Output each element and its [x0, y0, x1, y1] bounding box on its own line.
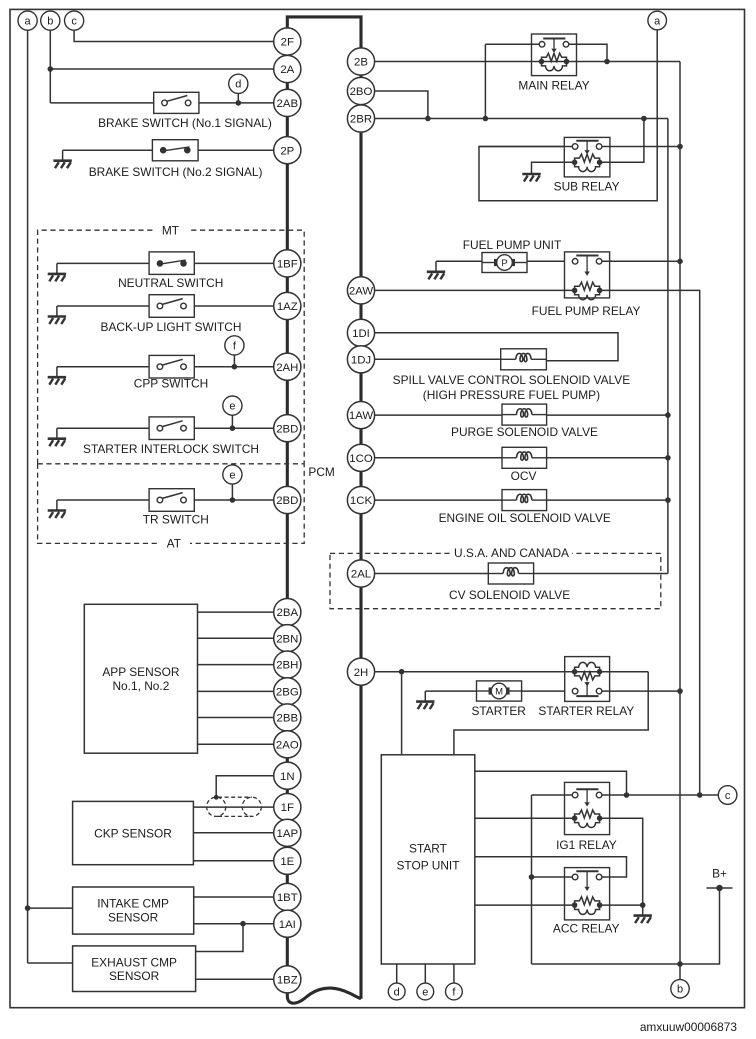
- svg-text:1CO: 1CO: [349, 453, 373, 465]
- pin 1DJ: [347, 346, 374, 373]
- wire node a drop: [27, 30, 29, 963]
- wire gnd to starter: [425, 690, 476, 692]
- svg-text:c: c: [71, 16, 77, 28]
- pin 1E: [274, 847, 301, 874]
- svg-text:1E: 1E: [280, 856, 294, 868]
- svg-text:ENGINE OIL SOLENOID VALVE: ENGINE OIL SOLENOID VALVE: [439, 511, 611, 525]
- svg-text:SENSOR: SENSOR: [109, 969, 160, 983]
- svg-text:STARTER: STARTER: [471, 704, 526, 718]
- shield dashed circle left: [207, 797, 226, 816]
- svg-text:IG1 RELAY: IG1 RELAY: [556, 838, 617, 852]
- wire backup sw to 1AZ: [194, 305, 273, 307]
- svg-text:2BH: 2BH: [276, 660, 298, 672]
- pin 2BR: [347, 105, 374, 132]
- wire SSU to IG1 coil: [475, 817, 575, 819]
- wire fp coil right: [600, 290, 700, 795]
- solenoid purge valve: [502, 404, 547, 425]
- svg-text:2BR: 2BR: [350, 114, 372, 126]
- svg-text:2AO: 2AO: [276, 739, 299, 751]
- svg-text:OCV: OCV: [511, 469, 537, 483]
- ground interlock switch: [48, 428, 66, 446]
- wire IG1 coil right: [600, 818, 643, 905]
- wire 2H loop to SSU: [454, 672, 648, 755]
- wire sub contact left: [479, 146, 575, 148]
- wire b to brake switch 1: [50, 102, 153, 104]
- node d: [229, 74, 248, 93]
- wire 1AW to purge: [375, 414, 502, 416]
- pin 2AW: [347, 277, 374, 304]
- svg-text:BRAKE SWITCH (No.1 SIGNAL): BRAKE SWITCH (No.1 SIGNAL): [98, 116, 272, 130]
- ground TR switch: [48, 500, 66, 518]
- svg-text:2BD: 2BD: [276, 423, 298, 435]
- ground backup switch: [48, 306, 66, 324]
- solenoid engine oil valve: [502, 490, 547, 511]
- svg-text:1AW: 1AW: [349, 410, 374, 422]
- wire 1N branch: [216, 776, 274, 798]
- MT dashed box: [38, 230, 305, 464]
- pin 1CO: [347, 444, 374, 471]
- pin 2BN: [274, 625, 301, 652]
- svg-text:CPP SWITCH: CPP SWITCH: [134, 377, 208, 391]
- svg-text:a: a: [25, 16, 32, 28]
- node dot d junction: [236, 100, 242, 106]
- node dot b-2A: [48, 66, 54, 72]
- svg-text:AT: AT: [167, 536, 181, 550]
- pin 2H: [347, 658, 374, 685]
- pin 2AH: [274, 353, 301, 380]
- USA label gap: [450, 547, 572, 559]
- wire e2 drop: [231, 484, 233, 500]
- wire SSU to IG1 contact: [475, 771, 627, 795]
- node dot sub contact right: [677, 144, 683, 150]
- wire SSU drop f: [453, 964, 455, 983]
- svg-text:SPILL VALVE CONTROL SOLENOID V: SPILL VALVE CONTROL SOLENOID VALVE: [393, 373, 631, 387]
- ground brake2: [53, 150, 71, 168]
- wire exhaust to 1BZ: [196, 978, 274, 980]
- node dot engine oil right: [665, 497, 671, 503]
- wire gnd to backup sw: [57, 305, 149, 307]
- svg-text:CV SOLENOID VALVE: CV SOLENOID VALVE: [449, 588, 570, 602]
- wire brake2 to 2P: [198, 149, 274, 151]
- node c top: [65, 11, 84, 30]
- node e bottom: [417, 983, 434, 1000]
- node dot fp contact right: [677, 259, 683, 265]
- exhaust CMP sensor box: [73, 946, 196, 992]
- node d bottom: [388, 983, 405, 1000]
- svg-text:MT: MT: [162, 223, 179, 237]
- wire interlock sw to 2BD: [194, 427, 273, 429]
- node f bottom: [446, 983, 463, 1000]
- wire 2H line: [375, 671, 649, 673]
- pin 1DI: [347, 319, 374, 346]
- svg-text:STOP UNIT: STOP UNIT: [397, 858, 460, 872]
- node dot ACC tap: [529, 874, 535, 880]
- pin 1AW: [347, 402, 374, 429]
- svg-text:FUEL PUMP RELAY: FUEL PUMP RELAY: [532, 304, 641, 318]
- node dot 2BO-2BR: [425, 116, 431, 122]
- wire PCM bus top: [287, 17, 361, 62]
- svg-text:PURGE SOLENOID VALVE: PURGE SOLENOID VALVE: [451, 425, 598, 439]
- svg-text:c: c: [725, 790, 731, 802]
- svg-text:1BT: 1BT: [277, 892, 298, 904]
- svg-text:EXHAUST CMP: EXHAUST CMP: [91, 955, 177, 969]
- node dot e2 junction: [230, 497, 236, 503]
- shield dashed tangents: [218, 796, 252, 798]
- wire node b drop: [49, 30, 51, 103]
- MT-AT divider dashed: [38, 463, 305, 465]
- svg-text:2AW: 2AW: [349, 286, 374, 298]
- ground starter: [416, 691, 434, 709]
- svg-text:1N: 1N: [280, 771, 295, 783]
- wire a to exhaust cmp: [28, 962, 73, 964]
- wire APP to 2BB: [198, 717, 274, 719]
- svg-text:2AH: 2AH: [276, 362, 298, 374]
- pin 2BD: [274, 415, 301, 442]
- wire engine oil right: [547, 499, 668, 501]
- node a top: [18, 11, 37, 30]
- node dot ACC gnd: [640, 902, 646, 908]
- pin 2BG: [274, 678, 301, 705]
- wire CPP sw to 2AH: [194, 366, 273, 368]
- ground sub relay: [522, 164, 540, 182]
- wire pump to fp relay: [527, 260, 565, 262]
- svg-text:B+: B+: [712, 866, 727, 880]
- pin 2AO: [274, 731, 301, 758]
- wire B+ down: [532, 888, 720, 964]
- wire IG1 contact to c: [600, 794, 719, 796]
- switch starter interlock: [149, 417, 194, 440]
- svg-text:e: e: [229, 469, 235, 481]
- node dot starter contact right: [677, 688, 683, 694]
- svg-text:e: e: [229, 401, 235, 413]
- svg-text:1AP: 1AP: [277, 828, 299, 840]
- wire ACC coil right: [600, 904, 643, 906]
- wire 2AL to CV: [375, 573, 489, 575]
- node dot sub coil feed: [641, 116, 647, 122]
- svg-text:2BG: 2BG: [276, 687, 299, 699]
- wire starter to relay: [522, 690, 565, 692]
- node dot f junction: [232, 364, 238, 370]
- wire intake to 1AI: [194, 923, 274, 925]
- wire IG1 contact line: [532, 794, 577, 796]
- switch TR: [149, 489, 194, 512]
- wire 2AW to fp coil: [375, 289, 575, 291]
- wire APP to 2BA: [198, 611, 274, 613]
- wire d drop: [237, 93, 239, 103]
- node dot 2BR riser: [483, 116, 489, 122]
- pin 2BO: [347, 77, 374, 104]
- pin 1N: [274, 762, 301, 789]
- wire 2H to SSU: [401, 672, 403, 755]
- wire sub contact right: [599, 146, 680, 148]
- pin 1AP: [274, 819, 301, 846]
- pin 2BB: [274, 704, 301, 731]
- pin 2BH: [274, 651, 301, 678]
- svg-text:1DI: 1DI: [352, 328, 370, 340]
- svg-text:b: b: [677, 984, 683, 996]
- svg-text:TR SWITCH: TR SWITCH: [143, 513, 209, 527]
- wire sub coil right: [600, 119, 644, 163]
- wire 2B line: [375, 61, 680, 63]
- svg-text:MAIN RELAY: MAIN RELAY: [518, 78, 589, 92]
- node dot shield: [214, 795, 219, 800]
- node b bottom: [671, 980, 689, 998]
- wire bus bottom squiggle: [287, 988, 361, 1003]
- wire 1AI branch to exhaust: [196, 924, 243, 952]
- wire neutral sw to 1BF: [194, 262, 273, 264]
- ground CPP switch: [48, 367, 66, 385]
- ground fuel pump: [427, 261, 445, 279]
- pin 1BZ: [274, 966, 301, 993]
- wire 1DJ to spill valve: [375, 358, 501, 360]
- wire PCM left bus: [286, 28, 289, 992]
- svg-text:U.S.A. AND CANADA: U.S.A. AND CANADA: [454, 546, 569, 560]
- wire main relay contact right: [566, 44, 607, 61]
- svg-text:ACC RELAY: ACC RELAY: [553, 922, 620, 936]
- wire OCV right: [547, 457, 668, 459]
- node e: [223, 396, 242, 415]
- svg-text:BRAKE SWITCH (No.2 SIGNAL): BRAKE SWITCH (No.2 SIGNAL): [89, 165, 263, 179]
- svg-text:d: d: [235, 79, 241, 91]
- wire SSU drop d: [396, 964, 398, 983]
- ground neutral switch: [48, 263, 66, 281]
- svg-text:INTAKE CMP: INTAKE CMP: [97, 897, 169, 911]
- wire 2BR line: [375, 118, 668, 120]
- node dot IG1 contact tap: [624, 792, 630, 798]
- CKP sensor box: [73, 801, 194, 864]
- svg-text:PCM: PCM: [308, 465, 334, 479]
- wire CKP to 1AP: [193, 832, 273, 834]
- svg-text:START: START: [409, 841, 447, 855]
- wire 1DI loop: [375, 333, 618, 361]
- node dot main relay contact: [604, 59, 610, 65]
- wire APP to 2AO: [198, 743, 274, 745]
- wire gnd to interlock sw: [57, 427, 149, 429]
- wire starter relay contact right: [599, 690, 680, 692]
- svg-text:2P: 2P: [280, 145, 294, 157]
- svg-text:SUB RELAY: SUB RELAY: [554, 179, 620, 193]
- wire purge right: [547, 414, 668, 416]
- intake CMP sensor box: [73, 887, 194, 934]
- svg-text:2A: 2A: [280, 64, 294, 76]
- svg-text:2AL: 2AL: [351, 569, 371, 581]
- wire ACC contact left: [532, 876, 577, 878]
- wire 2BR riser: [484, 44, 486, 118]
- svg-text:BACK-UP LIGHT SWITCH: BACK-UP LIGHT SWITCH: [101, 320, 242, 334]
- AT dashed box: [38, 464, 305, 544]
- svg-text:b: b: [47, 16, 53, 28]
- node dot c rail: [697, 792, 703, 798]
- pin 2BA: [274, 599, 301, 626]
- svg-text:No.1, No.2: No.1, No.2: [112, 679, 169, 693]
- node dot 1AI branch: [240, 921, 246, 927]
- APP sensor box: [84, 604, 197, 753]
- USA dashed box: [330, 553, 661, 608]
- pin 2P: [274, 137, 301, 164]
- solenoid OCV: [502, 447, 547, 468]
- wire a right drop: [656, 30, 658, 147]
- pin 1CK: [347, 487, 374, 514]
- pin 2BD: [274, 486, 301, 513]
- solenoid CV valve: [488, 563, 533, 584]
- svg-text:CKP SENSOR: CKP SENSOR: [94, 826, 172, 840]
- svg-text:d: d: [394, 986, 400, 998]
- svg-text:STARTER INTERLOCK SWITCH: STARTER INTERLOCK SWITCH: [83, 442, 259, 456]
- pin 1AZ: [274, 292, 301, 319]
- relay FUEL PUMP: [565, 252, 610, 298]
- svg-text:STARTER RELAY: STARTER RELAY: [538, 704, 634, 718]
- wire brake1 to 2AB: [199, 102, 274, 104]
- wire B+ rail up: [531, 795, 533, 964]
- pin 2AB: [274, 89, 301, 116]
- node dot 2H branch: [399, 669, 405, 675]
- svg-text:e: e: [422, 986, 428, 998]
- switch neutral: [149, 252, 194, 275]
- svg-text:2H: 2H: [354, 667, 369, 679]
- wire 2B down right edge: [679, 62, 681, 982]
- svg-text:2BO: 2BO: [350, 86, 373, 98]
- node dot purge right: [665, 412, 671, 418]
- wire main relay contact left: [485, 43, 541, 45]
- wire e drop: [231, 415, 233, 428]
- node e2: [223, 465, 242, 484]
- svg-text:1BZ: 1BZ: [277, 974, 298, 986]
- svg-text:SENSOR: SENSOR: [108, 910, 159, 924]
- wire a to intake cmp: [28, 907, 73, 909]
- wire CKP to 1E: [193, 860, 273, 862]
- svg-text:M: M: [495, 686, 503, 697]
- pin 2F: [274, 28, 301, 55]
- pin 1BT: [274, 883, 301, 910]
- wire 1CO to OCV: [375, 457, 502, 459]
- node b top: [41, 11, 60, 30]
- wire SSU to ACC coil: [475, 904, 575, 906]
- ground ACC relay: [634, 905, 652, 923]
- wire gnd to neutral sw: [57, 262, 149, 264]
- pin 2A: [274, 55, 301, 82]
- wire CV right: [534, 573, 668, 575]
- svg-text:1CK: 1CK: [350, 495, 373, 507]
- svg-text:(HIGH PRESSURE FUEL PUMP): (HIGH PRESSURE FUEL PUMP): [423, 388, 600, 402]
- wire TR sw to 2BD: [194, 499, 273, 501]
- pin 2AL: [347, 560, 374, 587]
- wire c to 2F: [74, 30, 274, 42]
- pin 1F: [274, 794, 301, 821]
- wire f drop: [233, 355, 235, 367]
- start stop unit box: [381, 755, 475, 964]
- B+ terminal: [707, 887, 733, 889]
- wire CKP to 1F: [193, 806, 273, 808]
- wire gnd to brake2: [63, 149, 153, 151]
- MT label gap: [155, 224, 189, 236]
- wire 1CK to engine oil: [375, 499, 502, 501]
- wire APP to 2BH: [198, 664, 274, 666]
- svg-text:1BF: 1BF: [277, 259, 298, 271]
- svg-text:2BB: 2BB: [277, 713, 299, 725]
- motor fuel pump P: [482, 253, 527, 273]
- relay MAIN: [532, 34, 577, 76]
- switch brake No.1: [154, 92, 199, 113]
- svg-text:a: a: [654, 15, 661, 27]
- switch brake No.2: [152, 140, 198, 161]
- node dot a-intake: [25, 905, 31, 911]
- svg-text:2BA: 2BA: [277, 607, 299, 619]
- wire right rail 2BR: [667, 119, 669, 574]
- relay STARTER: [565, 657, 610, 702]
- svg-text:1F: 1F: [281, 802, 294, 814]
- pin 1BF: [274, 250, 301, 277]
- wire sub relay loop: [479, 147, 657, 201]
- switch back-up light: [149, 295, 194, 318]
- node c right: [718, 786, 737, 805]
- wire b to 2A: [50, 68, 273, 70]
- solenoid spill valve: [501, 349, 547, 370]
- wire SSU drop e: [424, 964, 426, 983]
- svg-text:2AB: 2AB: [277, 98, 299, 110]
- motor starter M: [477, 681, 522, 701]
- svg-text:2F: 2F: [281, 37, 294, 49]
- svg-text:NEUTRAL SWITCH: NEUTRAL SWITCH: [118, 276, 223, 290]
- svg-text:amxuuw00006873: amxuuw00006873: [640, 1020, 738, 1034]
- wire 2BO bend: [375, 91, 428, 119]
- svg-text:2BN: 2BN: [276, 633, 298, 645]
- wire PCM right bus: [359, 47, 362, 999]
- wire fp contact right: [599, 260, 680, 262]
- node f: [225, 336, 244, 355]
- node dot e junction: [230, 425, 236, 431]
- relay SUB: [564, 137, 610, 177]
- AT label gap: [158, 537, 190, 549]
- wire APP to 2BG: [198, 690, 274, 692]
- node dot OCV right: [665, 455, 671, 461]
- pin 2B: [347, 48, 374, 75]
- svg-text:1AI: 1AI: [279, 919, 296, 931]
- svg-text:2BD: 2BD: [276, 495, 298, 507]
- node a right: [648, 11, 667, 30]
- shield dashed circle right: [242, 797, 261, 816]
- node dot B+ b: [677, 961, 683, 967]
- relay ACC: [565, 868, 610, 920]
- switch CPP: [149, 355, 194, 378]
- wire SSU to ACC contact: [475, 857, 627, 877]
- wire gnd to TR sw: [57, 499, 149, 501]
- svg-text:2B: 2B: [354, 57, 368, 69]
- svg-text:FUEL PUMP UNIT: FUEL PUMP UNIT: [463, 238, 561, 252]
- relay IG1: [565, 782, 610, 834]
- svg-text:1DJ: 1DJ: [351, 354, 371, 366]
- wire gnd to sub coil: [532, 162, 575, 163]
- pin 1AI: [274, 910, 301, 937]
- svg-text:APP SENSOR: APP SENSOR: [102, 665, 180, 679]
- wire gnd to CPP sw: [57, 366, 149, 368]
- wire APP to 2BN: [198, 637, 274, 639]
- svg-text:1AZ: 1AZ: [277, 301, 298, 313]
- wire intake to 1BT: [194, 896, 274, 898]
- wire gnd to pump: [436, 260, 482, 262]
- svg-text:P: P: [501, 258, 507, 269]
